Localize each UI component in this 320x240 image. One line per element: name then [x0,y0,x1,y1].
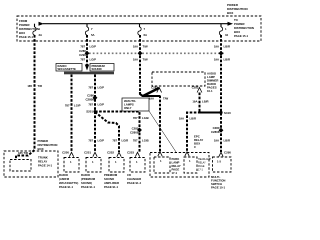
wire W2b (bar down, premium) [94,75,96,153]
svg-text:S410: S410 [224,111,231,115]
svg-text:W/CASSETTE: W/CASSETTE [58,67,76,71]
svg-text:1: 1 [115,160,117,164]
note EPC relay box [194,135,203,150]
svg-text:1: 1 [92,160,94,164]
svg-text:34: 34 [225,33,229,37]
splice S201 [86,110,96,114]
wire W3 elbow to node [140,92,160,96]
connector diamond [137,128,142,133]
connector diamond on W2 [85,51,90,56]
svg-text:787: 787 [88,86,93,90]
svg-text:T/W: T/W [143,45,148,49]
svg-text:1-5: 1-5 [217,160,221,164]
svg-text:1: 1 [189,159,191,163]
connector arrow C281 (left) [151,86,162,93]
svg-text:LG/P: LG/P [74,104,81,108]
svg-text:10-1: 10-1 [207,89,213,93]
label 787 LG/P lower [88,139,104,143]
wire stub up to connector arrow [143,88,159,96]
label 787 LG/B [133,116,149,120]
note: to power distribution box [234,18,254,38]
connector C252 (premium amp) [107,151,121,157]
svg-text:LB/R: LB/R [224,45,231,49]
note: power distribution box (left, near trunk relay) [38,139,58,151]
note park lamp relay [172,157,181,175]
svg-text:1: 1 [136,160,138,164]
svg-text:SOUND: SOUND [92,67,102,71]
label 19A LB/R [179,117,196,121]
label 19A T/W [149,97,169,101]
connector C253 (cd changer) [127,151,140,157]
leader line [149,111,176,152]
svg-text:C253: C253 [127,151,134,155]
svg-text:LG/P: LG/P [90,58,97,62]
connector C250 (radio w/cassette) [62,151,74,157]
in-line connector dashed line [89,52,225,54]
label 787 LG/B [133,139,149,143]
svg-text:PAGE 15-1: PAGE 15-1 [19,35,34,39]
label 787 LG/P [80,45,96,49]
relay enclosure box [150,153,209,178]
note: from power distribution box [19,19,39,39]
svg-text:PAGE 91-4: PAGE 91-4 [127,181,142,185]
svg-text:19A: 19A [133,45,138,49]
connector diamond [219,128,224,133]
svg-text:LG/B: LG/B [142,116,149,120]
label 19A T/W [133,45,148,49]
svg-text:787: 787 [88,103,93,107]
svg-text:T/R: T/R [38,84,43,88]
svg-text:BOX: BOX [227,11,233,15]
svg-text:S201: S201 [86,110,93,114]
svg-text:C250: C250 [62,151,69,155]
svg-text:7: 7 [144,27,146,31]
svg-text:C2808: C2808 [211,130,220,134]
svg-text:185 T/R: 185 T/R [18,151,28,155]
svg-text:17-1: 17-1 [172,171,178,175]
label 787 LG/P [88,103,104,107]
svg-text:19A: 19A [214,58,219,62]
fuse F3 [138,24,147,37]
fuse F2 [85,24,94,37]
svg-text:C290: C290 [224,151,231,155]
svg-text:C281: C281 [151,86,158,90]
fuse F4 [219,24,228,37]
svg-text:5A: 5A [91,33,95,37]
wire W1 elbow into trunk relay [16,146,35,160]
wire from C282 down to S410 [200,93,220,113]
svg-text:C282: C282 [192,86,199,90]
label 19A LB/R [214,45,230,49]
svg-text:787: 787 [65,104,70,108]
connector C280 C2808 [130,126,139,134]
svg-text:787: 787 [80,58,85,62]
svg-text:PAGE 91-1: PAGE 91-1 [104,185,119,189]
svg-text:LG/P: LG/P [98,139,105,143]
svg-text:ONLY: ONLY [124,106,132,110]
svg-text:LB/R: LB/R [224,139,231,143]
multi-function switch box [211,157,231,189]
connector C280 C2808 on W4 [211,126,220,134]
svg-text:LG/B: LG/B [142,139,149,143]
svg-text:1: 1 [70,160,72,164]
svg-text:PAGE 91-1: PAGE 91-1 [81,185,96,189]
svg-text:787: 787 [80,45,85,49]
wire branch to premium amplifier [95,112,119,152]
cd changer box [127,158,145,186]
svg-text:787: 787 [112,139,117,143]
connector arrow (park lamp relay) [158,152,162,156]
svg-text:787: 787 [133,139,138,143]
svg-text:PAGE 15-1: PAGE 15-1 [234,34,249,38]
fuse F1 [33,24,42,37]
wire W1 (fuse F1 down) [34,35,36,149]
svg-text:LG/R: LG/R [122,139,129,143]
svg-text:17-1: 17-1 [198,169,203,172]
svg-text:787: 787 [133,116,138,120]
note box: W/AUTOLAMPS ONLY [122,98,149,111]
label 19A T/W [133,58,148,62]
svg-text:C: C [194,145,196,149]
svg-text:19A: 19A [192,100,197,104]
premium sound amplifier box [104,158,124,190]
connector arrow (headlamp relay) [185,152,189,156]
wire W3 (fuse F3 down) [139,35,141,94]
wire bus B+ [43,23,228,25]
connector C290 (multi-function switch) [219,151,232,157]
label 19A LB/R [214,58,230,62]
wire W2 (fuse F2 down) [86,35,88,65]
svg-text:LB/R: LB/R [190,117,197,121]
splice S410 [219,111,231,115]
svg-text:PAGE 14-1: PAGE 14-1 [38,164,53,168]
wire W2a (bar to radio connector) [71,75,73,153]
option box: RADIO W/CASSETTE [56,64,82,72]
wire branch to CD changer [95,112,140,153]
label 787 LG/P [88,86,104,90]
trunk relay sub box [10,160,31,172]
trunk relay enclosure [4,151,58,177]
wire branch S410 to headlamp relay [187,113,221,153]
label 19A LB/R [192,100,208,104]
label 19A LB/R [214,139,230,143]
svg-text:19A: 19A [179,117,184,121]
svg-text:787: 787 [88,139,93,143]
svg-text:T/W: T/W [143,58,148,62]
svg-text:LG/P: LG/P [90,45,97,49]
svg-text:PAGE 91-1: PAGE 91-1 [59,185,74,189]
arrow into options bar [85,65,89,71]
label 787 LG/R [112,139,128,143]
svg-text:185: 185 [27,84,32,88]
radio (am/fm w/cassette) box [59,158,79,190]
wire W4 (fuse F4 down) [220,35,222,152]
wire W3b (node down to park lamp relay) [159,96,161,153]
svg-text:LG/P: LG/P [98,86,105,90]
svg-text:19A: 19A [214,45,219,49]
svg-text:C252: C252 [107,151,114,155]
svg-text:C2808: C2808 [130,130,139,134]
headlamp relay box [184,157,197,173]
note trunk relay [38,156,53,168]
power distribution box (top dashed enclosure) [17,16,261,41]
connector diamond on W4 [219,51,224,56]
svg-text:19A: 19A [214,139,219,143]
connector C280 C290 [79,49,86,57]
connector diamond on W2b [93,95,98,100]
connector arrow C282 (right) [192,86,202,93]
dashed reference box (audio lamp dimmer / radio) [152,72,205,86]
svg-text:1: 1 [225,27,227,31]
svg-text:BOX: BOX [38,147,44,151]
svg-text:LB/R: LB/R [224,58,231,62]
connector C280 C2808 [85,94,94,102]
arrow (to PDB) [228,22,234,26]
label 787 LG/P [65,104,81,108]
svg-text:7: 7 [91,27,93,31]
svg-text:1: 1 [160,159,162,163]
svg-text:LB/R: LB/R [202,100,209,104]
option box: PREMIUM SOUND [90,64,114,72]
options bus bar [64,72,114,75]
svg-text:1: 1 [39,27,41,31]
park lamp relay box [154,157,170,173]
connector C251 (radio premium) [84,151,97,157]
note headlamp relay [198,158,212,172]
connector diamond on W3 [138,51,143,56]
svg-text:PAGE 10-1: PAGE 10-1 [211,185,226,189]
arrow (from PDB) [39,22,45,26]
svg-text:19A: 19A [133,58,138,62]
label 185 T/R [27,84,42,88]
title: POWER DISTRIBUTION BOX [227,3,248,15]
label 787 LG/P [80,58,96,62]
svg-text:6A: 6A [144,33,148,37]
radio (premium sound) box [81,158,101,190]
svg-text:LG/P: LG/P [98,103,105,107]
note text [207,72,218,94]
svg-text:3A: 3A [39,33,43,37]
svg-text:19A: 19A [149,97,154,101]
svg-text:C251: C251 [84,151,91,155]
svg-text:T/W: T/W [163,97,168,101]
